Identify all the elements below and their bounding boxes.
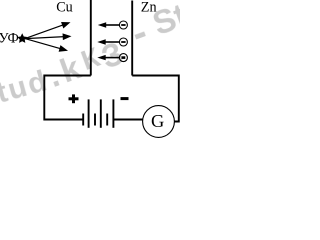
wire: battery negative terminal to galvanometer [113,119,143,121]
UV source star [17,33,27,43]
wire: Cu plate bottom to battery positive terminal [44,76,91,120]
svg-text:G: G [151,111,164,131]
battery GB1 cell1 short plate (+ side) [82,114,84,126]
svg-text:Cu: Cu [56,0,73,16]
electron e1 (top, arrow with circled minus) [98,21,128,29]
svg-text:Zn: Zn [141,0,157,16]
wire: galvanometer to Zn plate bottom [132,76,179,122]
label Zn [141,0,157,16]
battery GB1 cell2 short plate [94,114,96,126]
label − (battery negative) [121,97,129,100]
electron e2 (middle, arrow with circled minus) [97,38,127,46]
electron e3 (bottom, arrow with circled minus) [97,54,127,62]
svg-text:УФ: УФ [0,31,19,47]
battery GB1 cell3 short plate [106,114,108,126]
battery GB1 cell1 tall plate [88,99,90,127]
battery GB1 cell2 tall plate [100,99,102,127]
electrode Zn (right plate) [131,1,133,76]
electrode Cu (left plate) [90,0,92,76]
label + (battery positive) [69,94,79,103]
battery GB1 cell3 tall plate (− side) [112,99,114,127]
watermark fragment "- S" [126,10,154,56]
UV ray arrow 3 (lower) [25,39,68,52]
watermark fragment "tud" [0,64,52,110]
label G [151,111,164,131]
label Cu [56,0,73,16]
watermark fragment "St" [148,0,192,42]
svg-text:-: - [126,10,154,56]
UV ray arrow 1 (upper) [25,22,71,39]
label УФ (UV light source) [0,31,19,47]
watermark fragment "З" [97,35,128,76]
UV ray arrow 2 (middle) [25,33,72,40]
watermark fragment "Кз" [77,41,105,76]
watermark fragment ".k" [43,47,89,94]
galvanometer G (circle) [143,106,175,138]
